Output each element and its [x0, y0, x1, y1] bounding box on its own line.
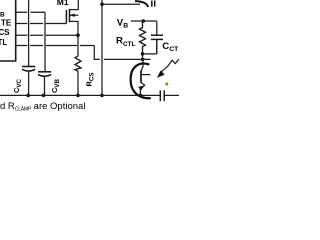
pin label CTL	[0, 38, 7, 47]
node x102-gnd	[100, 94, 104, 98]
label M1	[57, 0, 69, 7]
svg-text:TL: TL	[0, 38, 7, 47]
transistor M1 gate bar	[65, 10, 67, 24]
transistor M1 channel bar	[69, 9, 71, 22]
node CTL rail - opto collector	[141, 58, 145, 62]
svg-text:B: B	[0, 11, 5, 18]
wire GATE pin row	[16, 23, 67, 25]
wire VB stub	[131, 20, 144, 22]
node CVC-gnd	[26, 94, 30, 98]
node CVB-gnd	[42, 94, 46, 98]
node RCTL bottom branch	[141, 52, 145, 56]
label CVC	[12, 78, 23, 93]
wire RCTL drop to CTL rail	[142, 54, 144, 60]
svg-text:TE: TE	[1, 18, 12, 27]
light arrow head	[157, 70, 165, 77]
ground bottom wire	[0, 94, 179, 96]
svg-text:M1: M1	[57, 0, 69, 7]
wire drain riser	[77, 0, 79, 10]
wire CCTL top lead	[156, 21, 158, 35]
wire CTL pin row	[16, 45, 95, 47]
label VB net	[117, 17, 128, 29]
opto base stub	[141, 74, 150, 76]
transistor M1 source stub	[70, 20, 79, 22]
node emitter-gnd	[139, 94, 143, 98]
opto collector lead	[141, 59, 143, 71]
capacitor CY bar2	[163, 90, 165, 101]
capacitor CCTL	[151, 35, 163, 39]
wire vertical x102	[101, 0, 103, 95]
IC U1 box right edge	[0, 0, 16, 61]
transistor M1 drain stub	[70, 9, 79, 11]
wire M1 source drop	[77, 21, 79, 56]
wire VB drop to CVB	[44, 12, 46, 71]
wire RCS lead	[77, 71, 79, 95]
label RCTL	[116, 36, 135, 48]
node RCS-gnd	[76, 94, 80, 98]
pin label CS	[0, 28, 10, 37]
transistor M1 body stub	[70, 14, 79, 16]
opto emitter arrow	[138, 86, 143, 91]
capacitor top-right bar1	[151, 1, 153, 7]
label CCTL	[162, 41, 179, 53]
resistor RCS	[75, 56, 81, 71]
transistor M1 body arrow	[70, 13, 74, 17]
resistor RCTL	[140, 21, 146, 54]
node VB-RCTL	[142, 19, 146, 23]
orange mark	[166, 83, 169, 86]
label RCS	[85, 72, 96, 86]
wire VB rail to CCTL	[143, 20, 157, 22]
wire VB pin row	[16, 11, 46, 13]
top right curve	[135, 1, 148, 7]
pin label GATE	[1, 18, 12, 27]
wire CTL jog down	[94, 46, 150, 60]
svg-text:d RCLAMP are Optional: d RCLAMP are Optional	[0, 101, 85, 111]
capacitor CVB	[38, 72, 51, 77]
capacitor CVC	[22, 67, 35, 72]
opto U2 circle arc	[131, 64, 151, 99]
opto emitter	[140, 83, 144, 96]
label CVB	[50, 78, 61, 93]
wire CVB lead	[44, 71, 46, 95]
capacitor CY bar1	[159, 90, 161, 101]
node CS-source junction	[76, 33, 80, 37]
wire branch RCTL to CCTL bottom	[143, 39, 157, 54]
wire CVC lead	[28, 72, 30, 96]
wire CCTL bottom lead	[156, 39, 158, 54]
pin label VB	[0, 11, 5, 18]
wire top rail	[102, 3, 140, 5]
note text	[0, 101, 85, 113]
svg-text:CS: CS	[0, 28, 10, 37]
capacitor top-right bar2	[154, 1, 156, 7]
opto base bar	[140, 71, 142, 84]
wire CS pin row	[16, 34, 79, 36]
node drain rail / x102	[100, 2, 104, 6]
wire VC bus	[28, 0, 30, 66]
light arrow	[160, 59, 179, 73]
